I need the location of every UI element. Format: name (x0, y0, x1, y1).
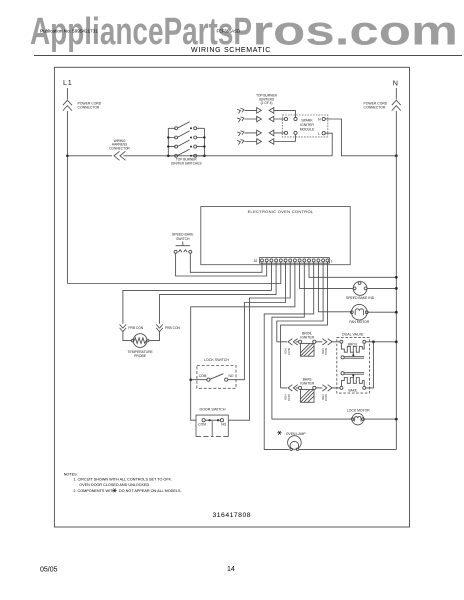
junction N rail feed (395, 154, 398, 157)
wire L1 bus (67, 155, 332, 157)
igniter electrode row 1 (237, 107, 244, 113)
broil igniter row wire (277, 341, 340, 343)
wire T15 to bake igniter feed (281, 262, 328, 388)
wire lock motor to N rail (364, 418, 396, 420)
spark igniter module pin L label (318, 132, 320, 136)
svg-text:OVEN LAMP: OVEN LAMP (286, 432, 307, 436)
svg-text:N: N (318, 118, 321, 122)
junction N at 419 (395, 418, 398, 421)
wiring harness connector chevrons (114, 151, 126, 160)
header publication number (40, 29, 98, 34)
igniter spark gap row 2 (245, 116, 285, 122)
title WIRING SCHEMATIC (191, 47, 271, 54)
svg-text:LOCK SWITCH: LOCK SWITCH (204, 358, 229, 362)
wire module N pin to N rail (325, 119, 396, 156)
svg-text:DOOR SWITCH: DOOR SWITCH (200, 408, 226, 412)
svg-text:14: 14 (227, 566, 235, 573)
wire speed bake indicator to N rail (367, 287, 396, 289)
electronic oven control box (201, 207, 350, 265)
lock motor M2 (351, 413, 364, 425)
top burner igniter switches box rails (168, 128, 204, 156)
top burner switch row 1 (168, 122, 204, 129)
svg-text:SPEED BAKE IND: SPEED BAKE IND (346, 296, 375, 300)
bake igniter left connector label (284, 394, 291, 401)
svg-text:LOCK MOTOR: LOCK MOTOR (347, 409, 370, 413)
svg-text:CONNECTOR: CONNECTOR (78, 105, 100, 109)
svg-text:IGNITER: IGNITER (300, 382, 314, 386)
svg-text:L1: L1 (63, 78, 73, 87)
svg-text:CONNECTOR: CONNECTOR (364, 105, 386, 109)
svg-text:CON: CON (324, 394, 328, 401)
wire T8 to lock and door switch COM (191, 262, 295, 420)
junction lock COM tap (189, 378, 192, 381)
lock switch NO label (229, 374, 234, 378)
door switch NO label (221, 423, 226, 427)
oven lamp DS2 (288, 436, 302, 451)
oven lamp asterisk (277, 431, 281, 435)
igniter spark gap row 3 (245, 130, 285, 136)
wire L1 drop (66, 88, 68, 284)
svg-text:N: N (393, 79, 398, 88)
bake igniter right connector label (321, 394, 328, 401)
node N (393, 79, 398, 88)
bake valve label (349, 388, 358, 392)
junction N at 288 (395, 287, 398, 290)
EOC terminal strip (260, 258, 330, 264)
svg-text:ELECTRONIC OVEN CONTROL: ELECTRONIC OVEN CONTROL (248, 209, 314, 214)
svg-text:05/05: 05/05 (40, 567, 58, 574)
footer date 05/05 (40, 567, 58, 574)
speed bake switch S1 (174, 242, 192, 254)
svg-text:1: 1 (331, 260, 333, 264)
wire module L pin to L1 bus (325, 133, 332, 156)
svg-text:16: 16 (254, 259, 258, 263)
svg-text:BAKE: BAKE (349, 388, 358, 392)
svg-text:OVEN DOOR CLOSED AND UNLOCKED.: OVEN DOOR CLOSED AND UNLOCKED. (79, 483, 150, 487)
lock motor label (347, 409, 370, 413)
oven lamp label with asterisk (286, 432, 307, 436)
wire N rail (395, 156, 397, 450)
svg-text:PRB CON: PRB CON (165, 326, 181, 330)
broil igniter right connector label (321, 348, 328, 355)
power cord connector N label (364, 101, 388, 109)
dual valve box (337, 338, 370, 394)
wire lock switch COM (191, 379, 207, 381)
igniter spark gap row 1 (245, 108, 296, 118)
svg-text:2. COMPONENTS WITH: 2. COMPONENTS WITH (73, 489, 115, 493)
svg-text:NO: NO (221, 423, 226, 427)
door switch divider (211, 421, 213, 436)
broil valve coil (340, 340, 366, 352)
svg-text:1. CIRCUIT SHOWN WITH ALL CON: 1. CIRCUIT SHOWN WITH ALL CONTROLS SET T… (73, 477, 171, 481)
temperature probe label (127, 350, 153, 358)
svg-text:Publication No: 5995421731: Publication No: 5995421731 (40, 29, 98, 34)
bake igniter left connector chevrons (288, 385, 298, 391)
lock switch box (197, 366, 236, 389)
wire T4 to probe right connector (149, 262, 277, 341)
power cord connector L1 label (78, 101, 102, 109)
power cord connector L1 chevrons (63, 100, 72, 110)
broil igniter element (299, 340, 316, 356)
broil valve label (348, 343, 358, 347)
wire T5 to L1 (67, 262, 280, 284)
probe connector right chevrons (156, 324, 163, 331)
broil igniter label (300, 331, 314, 339)
wire T1 to speed bake switch right (190, 253, 262, 272)
svg-text:IGNITER SWITCHES: IGNITER SWITCHES (171, 161, 202, 165)
speed bake switch label (172, 233, 194, 241)
wire T14 to broil igniter feed (277, 262, 323, 342)
lock switch COM label (199, 374, 207, 378)
schematic frame (54, 67, 409, 527)
svg-text:DO NOT APPEAR ON ALL MODELS.: DO NOT APPEAR ON ALL MODELS. (119, 489, 182, 493)
svg-text:(2 OF 4): (2 OF 4) (261, 101, 273, 105)
footer page 14 (227, 566, 235, 573)
watermark AppliancePartsPros.com (30, 8, 458, 54)
bake igniter element (299, 386, 316, 402)
svg-text:CON: CON (324, 348, 328, 355)
speed bake indicator label (346, 296, 375, 300)
bake valve coil (340, 378, 366, 390)
wire T7 to door switch NO (228, 262, 290, 420)
svg-text:PROBE: PROBE (134, 354, 147, 358)
svg-text:WIRING SCHEMATIC: WIRING SCHEMATIC (191, 47, 271, 54)
bake igniter label (300, 378, 314, 386)
broil igniter left connector chevrons (288, 339, 298, 345)
svg-text:NOTES:: NOTES: (64, 472, 78, 476)
svg-text:L: L (318, 132, 320, 136)
svg-text:MODULE: MODULE (300, 128, 315, 132)
spark igniter module U1 box (282, 115, 328, 137)
bake igniter right connector chevrons (322, 385, 332, 391)
node L1 (63, 78, 73, 87)
wire T3 to probe left connector (123, 262, 272, 341)
probe connector left chevrons (120, 324, 127, 331)
igniter electrode row 2 (237, 116, 244, 122)
header model number (217, 28, 241, 33)
junction L1 bus (66, 155, 69, 158)
wire T10 to lock motor (272, 262, 352, 419)
svg-text:DUAL VALVE: DUAL VALVE (342, 332, 364, 336)
bake valve outlet (341, 372, 364, 379)
temperature probe RT1 (131, 334, 149, 348)
power cord connector N chevrons (392, 100, 401, 110)
fan motor M1 (350, 304, 368, 320)
wire N drop (395, 88, 397, 156)
wire oven lamp to N rail end (299, 449, 396, 451)
junction N at 312 (395, 311, 398, 314)
broil valve outlet (341, 352, 364, 359)
title rule (34, 55, 462, 57)
svg-text:COM: COM (199, 374, 207, 378)
junction bake feed (372, 340, 375, 343)
top burner igniter switches label (171, 158, 202, 166)
top burner igniters label (256, 94, 277, 106)
svg-text:ros.com: ros.com (253, 8, 459, 54)
wire T6 to lock switch NO (228, 262, 286, 380)
note asterisk symbol (112, 489, 116, 493)
svg-text:CONNECTOR: CONNECTOR (109, 146, 130, 150)
svg-text:PRB CON: PRB CON (128, 326, 144, 330)
probe connector left label (128, 326, 144, 330)
wire fan motor to N rail (368, 311, 396, 313)
bake igniter row wire (281, 387, 340, 389)
wire T9 to speed bake indicator (300, 262, 354, 288)
wire broil valve to N rail (366, 341, 397, 343)
part number 316417808 (213, 512, 252, 519)
notes block (64, 472, 182, 493)
igniter electrode row 3 (237, 130, 244, 136)
lock switch S2 (207, 374, 228, 382)
wire T13 to fan motor (318, 262, 351, 312)
svg-text:FAN MOTOR: FAN MOTOR (349, 320, 370, 324)
wire bake valve return (366, 342, 374, 388)
svg-text:FEF365ASD: FEF365ASD (217, 28, 241, 33)
svg-text:CON: CON (287, 348, 291, 355)
probe connector right label (165, 326, 181, 330)
lock switch label (204, 358, 229, 362)
wire T2 to speed bake switch left (176, 253, 267, 276)
svg-text:BROIL: BROIL (348, 343, 358, 347)
top burner switch row 3 (168, 140, 204, 147)
igniter spark gap row 4 (245, 135, 296, 145)
wiring harness connector label (109, 139, 130, 151)
broil igniter right connector chevrons (322, 339, 332, 345)
door switch box (196, 415, 228, 437)
junction N at 277 (395, 276, 398, 279)
spark igniter module label (300, 119, 315, 132)
igniter electrode row 4 (237, 138, 244, 144)
speed bake indicator DS1 (353, 282, 367, 296)
dual valve label (342, 332, 364, 336)
terminal 1 label (331, 260, 333, 264)
svg-text:IGNITER: IGNITER (300, 123, 314, 127)
spark igniter module pins (284, 117, 287, 120)
top burner switch row 2 (168, 131, 204, 138)
svg-text:IGNITER: IGNITER (300, 336, 314, 340)
door switch S3 (202, 419, 223, 422)
junction N at 342 (395, 340, 398, 343)
wire T12 to oven lamp (264, 262, 314, 450)
svg-text:NO: NO (229, 374, 234, 378)
door switch label (200, 408, 226, 412)
electronic oven control label (248, 209, 314, 214)
svg-text:316417808: 316417808 (213, 512, 252, 519)
top burner switch row 4 (168, 149, 204, 156)
svg-text:COM: COM (198, 423, 206, 427)
door switch COM label (198, 423, 206, 427)
fan motor label (349, 320, 370, 324)
svg-text:SWITCH: SWITCH (176, 237, 190, 241)
svg-text:CON: CON (287, 394, 291, 401)
wire T11 to N rail (309, 262, 396, 277)
terminal 16 label (254, 259, 258, 263)
spark igniter module pin N label (318, 118, 321, 122)
broil igniter left connector label (284, 348, 291, 355)
svg-text:SPARK: SPARK (301, 119, 313, 123)
